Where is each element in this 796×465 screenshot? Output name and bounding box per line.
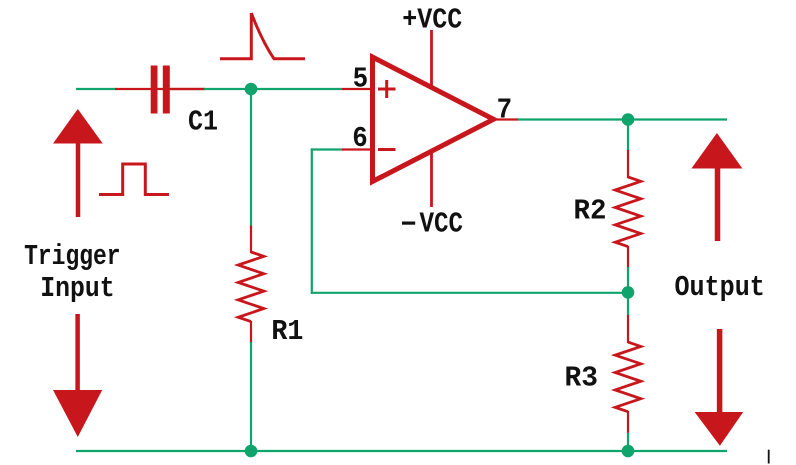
node C junction dot [622, 286, 635, 299]
svg-text:Trigger: Trigger [24, 240, 121, 273]
svg-text:7: 7 [497, 93, 512, 126]
svg-text:5: 5 [353, 62, 369, 95]
svg-text:Output: Output [675, 271, 765, 304]
wire R3 top green [627, 292, 629, 316]
output up arrow [691, 133, 742, 241]
pulse waveform [99, 164, 169, 195]
output down arrow [695, 329, 744, 446]
svg-text:R3: R3 [565, 362, 599, 395]
wire input left green segment [76, 88, 116, 90]
wire R1 bottom green [250, 342, 252, 451]
wire R2 bottom green [627, 267, 629, 293]
resistor R2 [615, 150, 641, 268]
wire feedback horizontal [311, 292, 628, 294]
-VCC supply line [430, 151, 433, 207]
trigger down arrow [53, 314, 102, 437]
op-amp U1 [373, 57, 494, 182]
svg-text:VCC: VCC [420, 208, 464, 241]
capacitor C1 [151, 66, 170, 114]
svg-text:Input: Input [40, 272, 114, 305]
wire output [518, 118, 727, 120]
wire feedback vertical [311, 148, 313, 294]
wire pin6 red stub [342, 148, 371, 150]
node E junction dot [622, 445, 635, 458]
op-amp minus input symbol [378, 148, 396, 151]
svg-text:+VCC: +VCC [402, 4, 462, 37]
label -VCC [402, 208, 463, 241]
wire pin6 green stub [311, 148, 343, 150]
resistor R3 [615, 315, 641, 434]
+VCC supply line [430, 30, 433, 86]
node D junction dot [245, 445, 258, 458]
wire R1 top green [250, 89, 252, 227]
spike waveform [220, 13, 305, 59]
node B junction dot [622, 113, 635, 126]
resistor R1 [238, 226, 264, 343]
wire pin5 red stub [342, 88, 371, 90]
text cursor bar [768, 450, 770, 464]
svg-text:R1: R1 [271, 315, 303, 348]
svg-text:R2: R2 [574, 195, 607, 228]
wire capacitor left lead [115, 88, 205, 90]
label Trigger Input [24, 240, 121, 305]
wire R2 top green [627, 120, 629, 152]
wire R3 bottom green [627, 433, 629, 452]
wire pin7 red stub [494, 118, 520, 120]
op-amp plus input symbol [378, 80, 396, 98]
wire bottom rail [76, 450, 727, 452]
svg-text:C1: C1 [188, 106, 218, 139]
node A junction dot [245, 83, 258, 96]
trigger up arrow [53, 109, 103, 217]
wire to node A [204, 88, 342, 90]
wire capacitor right lead [170, 88, 205, 90]
